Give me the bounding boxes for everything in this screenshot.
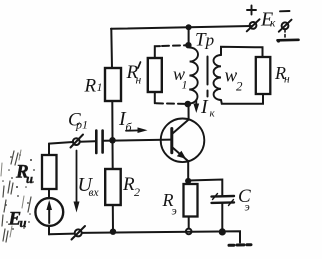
source Eи arrow (48, 206, 50, 223)
wire bottom rail (49, 232, 219, 235)
resistor R'н (148, 58, 162, 92)
winding w1 (189, 48, 198, 104)
label Тр (195, 30, 214, 51)
transistor collector stroke (173, 120, 189, 134)
wire terminal to Cр1 (80, 140, 95, 142)
label minus (280, 10, 290, 12)
svg-text:2: 2 (134, 185, 140, 199)
label R1 (84, 76, 103, 97)
svg-text:к: к (210, 108, 216, 120)
resistor R2 (105, 169, 121, 205)
wire Rэ top lead (187, 181, 189, 184)
wire R1 bottom lead (111, 101, 113, 140)
label Eк (260, 9, 276, 31)
label R2 (122, 174, 140, 199)
wire emitter to Cэ branch (188, 180, 222, 196)
wire base (104, 140, 171, 141)
label R'н (126, 62, 142, 87)
transistor VT circle (161, 119, 205, 163)
wire top rail (111, 26, 251, 29)
svg-text:к: к (270, 18, 276, 30)
ground chassis top right (278, 38, 299, 41)
terminal input top (71, 135, 84, 148)
svg-text:и: и (20, 216, 27, 230)
wire transformer primary top lead (188, 27, 190, 45)
transistor base bar (170, 129, 173, 153)
ground chassis bottom right (229, 243, 251, 247)
svg-text:I: I (200, 96, 209, 118)
label Cр1 (68, 110, 88, 132)
capacitor Cэ tick marks (213, 194, 234, 206)
node Cэ rail junction (219, 228, 226, 235)
capacitor Cэ (212, 196, 235, 203)
terminal input bottom (72, 226, 86, 240)
svg-text:р1: р1 (75, 118, 88, 132)
wire Rн bottom to w2 bottom (221, 94, 263, 104)
capacitor Cр1 (96, 131, 102, 154)
wire input top from terminal to source (49, 142, 73, 144)
label w1 (173, 64, 188, 92)
node Rэ rail open circle (186, 229, 192, 235)
wire Cэ bottom lead (221, 203, 223, 232)
svg-text:б: б (126, 120, 133, 134)
label Eи (smudged) (8, 209, 27, 231)
wire bottom rail right segment to ground (226, 231, 240, 242)
label Rн (274, 63, 290, 86)
node emitter junction (185, 178, 191, 184)
transistor emitter arrowhead (177, 151, 186, 159)
terminal Eк plus (247, 19, 260, 31)
wire w2 top to Rн (221, 47, 263, 57)
svg-text:2: 2 (236, 79, 243, 94)
node w1 top junction (185, 42, 191, 48)
svg-text:и: и (26, 172, 33, 186)
resistor Rн (256, 57, 270, 94)
label Iб (118, 108, 133, 134)
node collector / w1 bottom junction (185, 101, 192, 108)
svg-text:э: э (172, 204, 177, 218)
speckle noise around source labels (2, 154, 35, 230)
svg-text:1: 1 (182, 78, 188, 92)
wire R'н top lead dashed (155, 46, 160, 58)
svg-text:н: н (136, 75, 142, 87)
wire R1 branch top vertical (110, 29, 113, 68)
arrow Uвх (76, 151, 78, 206)
wire Rэ bottom lead (188, 217, 190, 229)
wire R2 bottom lead (112, 205, 114, 232)
label Rи (smudged) (15, 162, 33, 187)
wire Eк minus to ground (284, 30, 286, 39)
label Iк (200, 96, 216, 120)
wire Ri to source (48, 189, 50, 198)
label w2 (225, 66, 244, 94)
wire collector vertical (188, 104, 190, 120)
wire R2 branch vertical (112, 140, 114, 169)
node base divider junction (109, 137, 116, 144)
winding w2 (214, 55, 221, 100)
label Rэ (162, 190, 177, 218)
svg-text:вх: вх (89, 187, 100, 199)
wire source bottom lead (48, 226, 50, 235)
label plus (247, 6, 256, 15)
label Cэ (238, 186, 251, 214)
resistor R1 (105, 68, 121, 101)
node top rail / transformer junction (186, 24, 192, 30)
wire emitter vertical (187, 162, 189, 181)
source Eи circle (35, 198, 63, 226)
svg-text:э: э (245, 200, 250, 214)
resistor Rи (source internal) (42, 155, 57, 189)
svg-text:R: R (84, 76, 97, 97)
transformer core (207, 57, 209, 100)
arrow Iк (195, 100, 197, 107)
smudge artifacts left edge (2, 151, 31, 242)
svg-text:Тр: Тр (195, 30, 214, 51)
wire Ri top lead (48, 144, 50, 155)
wire R'н bottom lead dashed (154, 92, 156, 103)
transistor emitter stroke (173, 148, 189, 162)
svg-text:1: 1 (97, 80, 103, 94)
terminal Eк minus (279, 20, 292, 32)
svg-text:н: н (284, 74, 290, 86)
node R2 bottom rail junction (110, 229, 116, 235)
label Uвх (78, 174, 100, 199)
resistor Rэ (184, 184, 198, 217)
arrow Iб (126, 129, 141, 131)
